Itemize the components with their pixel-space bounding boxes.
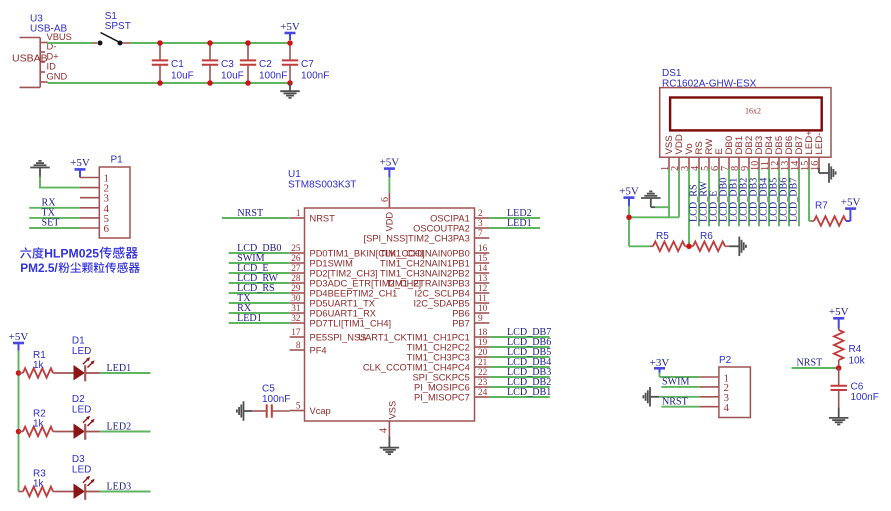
wire +5V rail (top) [130, 42, 290, 44]
connector P2 [699, 367, 750, 418]
svg-text:21: 21 [478, 358, 488, 368]
wire net LCD_RS to U1 [229, 292, 290, 294]
junction +5V / VDD / R5 [626, 215, 632, 221]
wire net LCD_E at DS1 pin 6 [718, 169, 720, 226]
svg-text:17: 17 [291, 328, 301, 338]
svg-text:4: 4 [724, 402, 730, 414]
wire RX to P1 pin 4 [29, 207, 80, 209]
svg-text:10k: 10k [849, 356, 866, 367]
svg-text:20: 20 [478, 348, 488, 358]
wire net LED3 [100, 491, 151, 493]
svg-text:1k: 1k [33, 479, 45, 490]
svg-text:TIM1_CH3PC3: TIM1_CH3PC3 [407, 352, 470, 362]
wire +5V down to R5 [629, 206, 650, 246]
svg-text:NRST: NRST [237, 208, 263, 219]
(VSS wire elbow) [655, 206, 670, 208]
switch S1 SPST [93, 33, 130, 46]
svg-text:PD4BEEPTIM2_CH1: PD4BEEPTIM2_CH1 [310, 288, 398, 298]
wire NRST to P2 pin 4 [661, 406, 699, 408]
svg-text:PD7TLI[TIM1_CH4]: PD7TLI[TIM1_CH4] [310, 318, 392, 328]
resistor R5 [650, 242, 685, 252]
svg-text:15: 15 [478, 254, 488, 264]
wire net LCD_DB6 at DS1 pin 13 [788, 169, 790, 226]
wire net LCD_DB3 from U1 [489, 376, 549, 378]
svg-text:ID: ID [47, 62, 57, 72]
U1 right pin stubs [475, 218, 490, 397]
wire net LED1 [100, 372, 151, 374]
svg-text:D3: D3 [72, 454, 85, 465]
svg-text:9: 9 [478, 314, 483, 324]
svg-text:1: 1 [296, 209, 301, 219]
wire GND rail (bottom) [48, 82, 290, 84]
capacitor C2 [240, 43, 256, 83]
wire net NRST to R4/C6 [792, 367, 839, 369]
power +3V at P2 pin 1 [650, 357, 670, 374]
U1 left pin names [310, 213, 425, 416]
wire R2 to D2 [55, 431, 74, 433]
wire net LED1 to U1 [229, 322, 290, 324]
LCD display window [670, 98, 822, 131]
ground below C6 [829, 407, 849, 424]
svg-text:10uF: 10uF [171, 71, 194, 82]
svg-text:SET: SET [42, 218, 60, 229]
svg-text:16x2: 16x2 [745, 107, 761, 116]
wire net RX to U1 [229, 312, 290, 314]
svg-text:SPST: SPST [105, 21, 131, 32]
svg-text:LED: LED [72, 346, 91, 357]
svg-text:TIM1_CH3NAIN2PB2: TIM1_CH3NAIN2PB2 [380, 268, 470, 278]
svg-text:24: 24 [478, 388, 488, 398]
svg-text:LED1: LED1 [237, 313, 262, 324]
svg-text:USBAB: USBAB [12, 52, 48, 64]
svg-text:LED1: LED1 [107, 363, 132, 374]
svg-text:+5V: +5V [9, 331, 29, 343]
svg-text:32: 32 [291, 314, 301, 324]
wire net LCD_DB5 at DS1 pin 12 [778, 169, 780, 226]
svg-text:+5V: +5V [619, 185, 639, 197]
P2 pin numbers 1-4 [724, 372, 730, 414]
svg-text:2: 2 [478, 209, 483, 219]
ground at P1 pin 2 [30, 161, 50, 178]
wire +3V to P2 pin 1 [660, 373, 700, 378]
junction on GND rail at C1 [157, 80, 163, 86]
wire DS1 pin1 VSS to ground [668, 169, 670, 217]
connector P1 [80, 167, 130, 238]
power +5V at LCD [619, 185, 639, 207]
svg-text:NRST: NRST [797, 358, 823, 369]
ground at C5 [237, 401, 252, 421]
svg-text:NRST: NRST [310, 213, 336, 223]
wire net LCD_DB6 from U1 [489, 346, 549, 348]
wire net LCD_DB0 at DS1 pin 7 [728, 169, 730, 226]
svg-text:R5: R5 [656, 231, 669, 242]
wire DS1 pin15 LED+ to R7 [809, 169, 811, 221]
svg-text:OSCIPA1: OSCIPA1 [430, 213, 470, 223]
svg-text:PB6: PB6 [452, 308, 470, 318]
svg-text:PF4: PF4 [310, 345, 327, 355]
svg-text:GND: GND [47, 72, 68, 82]
svg-text:LED: LED [72, 405, 91, 416]
svg-text:CLK_CCOTIM1_CH4PC4: CLK_CCOTIM1_CH4PC4 [363, 362, 470, 372]
wire ground to P2 pin 3 [659, 396, 699, 398]
resistor R1 [19, 368, 56, 378]
junction on +5V rail at C2 [245, 40, 251, 46]
svg-text:5: 5 [296, 402, 301, 412]
svg-text:PD5UART1_TX: PD5UART1_TX [310, 298, 375, 308]
wire DS1 pin2 VDD to +5V [629, 169, 679, 217]
junction at R2 [16, 429, 22, 435]
wire net LCD_DB7 from U1 [489, 336, 549, 338]
wire TX to P1 pin 5 [29, 217, 80, 219]
svg-text:LED3: LED3 [107, 481, 132, 492]
op U1 MCU STM8S003K3T box [305, 208, 475, 421]
wire net LCD_DB4 at DS1 pin 11 [768, 169, 770, 226]
svg-text:14: 14 [478, 264, 488, 274]
svg-text:8: 8 [296, 341, 301, 351]
wire net LED2 from U1 pin 2 [489, 217, 540, 219]
ground below C7 [280, 83, 300, 98]
svg-text:C5: C5 [262, 384, 275, 395]
svg-text:U1: U1 [288, 169, 301, 180]
ground at P2 pin 3 [643, 387, 659, 407]
svg-text:SPI_SCKPC5: SPI_SCKPC5 [412, 372, 469, 382]
power +5V at R4 [829, 306, 849, 328]
wire VBUS from U3 to S1 [48, 42, 93, 44]
wire net LED2 [100, 431, 151, 433]
power +5V symbol (top rail) [280, 21, 300, 40]
resistor R4 [834, 329, 844, 369]
ground at DS1 pin16 LED- [819, 163, 836, 183]
svg-text:30: 30 [291, 294, 301, 304]
svg-text:18: 18 [478, 328, 488, 338]
svg-text:29: 29 [291, 284, 301, 294]
power +5V above U1 [380, 156, 400, 178]
wire R3 to D3 [55, 491, 74, 493]
junction on +5V rail at C3 [207, 40, 213, 46]
U1 right pin numbers [478, 209, 488, 398]
svg-text:+5V: +5V [841, 196, 861, 208]
svg-text:PD2[TIM2_CH3]: PD2[TIM2_CH3] [310, 268, 378, 278]
wire net TX to U1 [229, 302, 290, 304]
junction on +5V rail at C7 [287, 40, 293, 46]
wire net LCD_DB0 to U1 [229, 252, 290, 254]
wire DS1 pin3 Vo down [688, 169, 690, 246]
wire net SWIM to U1 [229, 262, 290, 264]
wire NRST to U1 pin 1 [222, 217, 290, 219]
svg-text:LED-: LED- [814, 133, 825, 155]
wire net LCD_RS at DS1 pin 4 [698, 169, 700, 226]
svg-text:UART1_CKTIM1_CH1PC1: UART1_CKTIM1_CH1PC1 [358, 332, 469, 342]
svg-text:VDD: VDD [385, 212, 395, 232]
svg-text:I2C_SDAPB5: I2C_SDAPB5 [413, 298, 469, 308]
svg-text:7: 7 [478, 229, 483, 239]
svg-text:11: 11 [478, 294, 487, 304]
capacitor C3 [202, 43, 218, 83]
svg-text:HLPM025: HLPM025 [44, 247, 99, 261]
U1 left pin stubs [290, 218, 305, 411]
capacitor C7 [282, 43, 298, 83]
svg-text:USB-AB: USB-AB [30, 24, 68, 35]
svg-text:13: 13 [478, 274, 488, 284]
U1 left pin numbers [291, 209, 301, 412]
wire SET to P1 pin 6 [29, 227, 80, 229]
power +5V at R7 [841, 196, 861, 221]
svg-text:27: 27 [291, 264, 301, 274]
svg-text:P2: P2 [719, 355, 732, 366]
svg-text:C6: C6 [851, 382, 864, 393]
svg-text:LED: LED [72, 465, 91, 476]
chinese caption line 1 [20, 247, 138, 261]
U1 pin 4 VSS [388, 421, 390, 437]
resistor R2 [19, 427, 56, 437]
svg-text:Vcap: Vcap [310, 406, 331, 416]
junction on GND rail at C7 [287, 80, 293, 86]
wire net LCD_RW to U1 [229, 282, 290, 284]
wire net LCD_DB1 at DS1 pin 8 [738, 169, 740, 226]
svg-text:TIM1_CH2PC2: TIM1_CH2PC2 [407, 342, 470, 352]
svg-text:PD1SWIM: PD1SWIM [310, 258, 353, 268]
svg-text:+5V: +5V [280, 21, 300, 33]
wire net LCD_DB1 from U1 [489, 396, 549, 398]
wire net LCD_DB3 at DS1 pin 10 [758, 169, 760, 226]
svg-text:C7: C7 [301, 59, 314, 70]
ground at DS1 VSS [641, 191, 661, 207]
svg-text:6: 6 [104, 223, 110, 235]
capacitor C6 [831, 368, 847, 407]
svg-text:D+: D+ [47, 52, 59, 62]
power +5V at P1 pin 1 [70, 157, 90, 177]
junction Vo / R5 / R6 [686, 244, 692, 250]
svg-text:I2C_SCLPB4: I2C_SCLPB4 [415, 288, 470, 298]
svg-text:100nF: 100nF [301, 71, 329, 82]
capacitor C5 [252, 404, 290, 417]
LCD module DS1 outer box [660, 88, 831, 158]
junction at R1 [16, 370, 22, 376]
svg-text:R7: R7 [815, 201, 828, 212]
svg-text:100nF: 100nF [259, 71, 287, 82]
junction on GND rail at C2 [245, 80, 251, 86]
wire +5V vertical feed for LEDs [18, 350, 20, 491]
ground at R6 [730, 237, 746, 256]
LED D1 [74, 357, 100, 381]
ground below U1 VSS [380, 437, 400, 455]
wire net LCD_DB4 from U1 [489, 366, 549, 368]
svg-text:3: 3 [478, 219, 483, 229]
svg-text:PB7: PB7 [452, 318, 470, 328]
wire net LCD_DB2 at DS1 pin 9 [748, 169, 750, 226]
svg-text:31: 31 [291, 304, 301, 314]
svg-text:1k: 1k [33, 419, 45, 430]
junction R4/C6/NRST [836, 365, 842, 371]
svg-text:PI_MISOPC7: PI_MISOPC7 [414, 392, 470, 402]
capacitor C1 [152, 43, 168, 83]
svg-text:TIM1_CH1NAIN0PB0: TIM1_CH1NAIN0PB0 [380, 248, 470, 258]
wire +5V to VDD pin [388, 177, 390, 193]
svg-text:LED2: LED2 [107, 421, 132, 432]
svg-text:100nF: 100nF [851, 392, 879, 403]
svg-text:+5V: +5V [70, 157, 90, 169]
U1 pin 6 VDD [388, 193, 390, 208]
wire net LCD_DB5 from U1 [489, 356, 549, 358]
svg-text:PI_MOSIPC6: PI_MOSIPC6 [414, 382, 470, 392]
DS1 pin names [664, 130, 825, 155]
svg-text:PD6UART1_RX: PD6UART1_RX [310, 308, 376, 318]
wire net LCD_DB7 at DS1 pin 14 [798, 169, 800, 226]
LED D3 [74, 476, 100, 500]
resistor R7 [811, 216, 846, 226]
svg-text:D1: D1 [72, 336, 85, 347]
svg-text:LCD_DB7: LCD_DB7 [788, 178, 799, 222]
svg-text:16: 16 [478, 244, 488, 254]
svg-text:100nF: 100nF [262, 394, 290, 405]
svg-text:22: 22 [478, 368, 488, 378]
svg-text:LCD_DB1: LCD_DB1 [507, 387, 551, 398]
svg-text:DS1: DS1 [662, 68, 682, 79]
svg-text:23: 23 [478, 378, 488, 388]
svg-text:TIM1_ETRAIN3PB3: TIM1_ETRAIN3PB3 [387, 278, 470, 288]
svg-text:28: 28 [291, 274, 301, 284]
svg-text:26: 26 [291, 254, 301, 264]
svg-text:25: 25 [291, 244, 301, 254]
svg-text:D2: D2 [72, 394, 85, 405]
LED D2 [74, 416, 100, 440]
svg-text:OSCOUTPA2: OSCOUTPA2 [413, 223, 470, 233]
wire net LCD_RW at DS1 pin 5 [708, 169, 710, 226]
wire from ground to P1 pin 2 [39, 177, 80, 188]
DS1 pin stubs 1-16 [669, 157, 819, 169]
P1 pin numbers 1-6 [104, 173, 110, 236]
svg-text:+5V: +5V [380, 156, 400, 168]
svg-text:LED1: LED1 [507, 218, 532, 229]
svg-text:4: 4 [379, 428, 390, 433]
power +5V at LED block [9, 331, 29, 352]
svg-text:[SPI_NSS]TIM2_CH3PA3: [SPI_NSS]TIM2_CH3PA3 [364, 233, 470, 243]
svg-text:R6: R6 [700, 231, 713, 242]
wire net LCD_DB2 from U1 [489, 386, 549, 388]
svg-text:12: 12 [478, 284, 488, 294]
svg-text:C3: C3 [221, 59, 234, 70]
svg-text:P1: P1 [111, 155, 124, 166]
resistor R3 [19, 487, 56, 497]
junction on +5V rail at C1 [157, 40, 163, 46]
svg-text:1k: 1k [33, 360, 45, 371]
wire SWIM to P2 pin 2 [661, 386, 699, 388]
wire net LED1 from U1 pin 3 [489, 227, 540, 229]
svg-text:PM2.5/: PM2.5/ [20, 261, 58, 275]
wire R1 to D1 [55, 372, 74, 374]
svg-text:19: 19 [478, 338, 488, 348]
resistor R6 [685, 242, 730, 252]
svg-text:R4: R4 [849, 344, 862, 355]
svg-text:+5V: +5V [829, 306, 849, 318]
svg-text:10: 10 [478, 304, 488, 314]
svg-text:C2: C2 [259, 59, 272, 70]
svg-text:C1: C1 [171, 59, 184, 70]
svg-text:6: 6 [380, 197, 391, 202]
svg-text:10uF: 10uF [221, 71, 244, 82]
DS1 pin numbers 1-16 [660, 160, 821, 171]
USB connector U3 [12, 32, 72, 87]
wire net LCD_E to U1 [229, 272, 290, 274]
svg-text:VSS: VSS [388, 401, 398, 420]
U1 right pin names [358, 213, 469, 402]
chinese caption line 2 [20, 261, 140, 275]
svg-text:TIM1_CH2NAIN1PB1: TIM1_CH2NAIN1PB1 [380, 258, 470, 268]
junction on GND rail at C3 [207, 80, 213, 86]
svg-text:STM8S003K3T: STM8S003K3T [288, 180, 356, 191]
